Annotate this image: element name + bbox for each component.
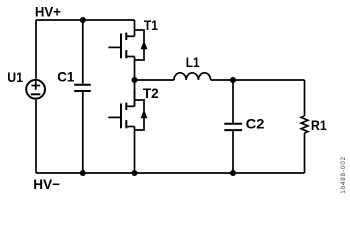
T1 arrow — [141, 41, 148, 50]
svg-text:16488-002: 16488-002 — [340, 156, 347, 194]
capacitor C2 — [224, 124, 242, 130]
svg-text:T2: T2 — [143, 85, 159, 101]
transistor T2 — [108, 90, 147, 173]
wire switch node to L1 — [135, 79, 175, 81]
node dot bottom rail / C2 — [230, 170, 236, 176]
T2 gate lead — [108, 116, 121, 118]
svg-text:T1: T1 — [144, 17, 158, 33]
T2 gate bar — [120, 104, 122, 129]
wire left vertical lower (U1 to HV-) — [35, 100, 37, 173]
wire switch node vertical (T1 source to T2 drain) — [134, 57, 136, 107]
svg-text:U1: U1 — [7, 69, 23, 85]
wire C2 branch upper — [232, 80, 234, 123]
capacitor C1 — [74, 85, 91, 91]
T1 drain stub — [126, 35, 134, 37]
T1 gate lead — [108, 46, 121, 48]
wire bottom rail HV- — [36, 172, 305, 174]
wire L1 to C2/R1 — [211, 79, 305, 81]
node dot bottom rail / C1 — [80, 170, 86, 176]
T2 drain lead — [134, 90, 136, 106]
T1 channel bottom segment — [125, 50, 127, 58]
T2 source stub — [126, 126, 134, 128]
svg-text:R1: R1 — [311, 117, 327, 133]
T1 drain lead — [134, 20, 136, 36]
wire C1 branch upper — [82, 20, 84, 84]
voltage source U1 — [26, 80, 45, 99]
wire left vertical upper (U1 to HV+) — [35, 20, 37, 79]
svg-text:HV+: HV+ — [35, 4, 61, 20]
svg-text:L1: L1 — [186, 54, 200, 70]
T1 source stub — [126, 56, 134, 58]
transistor T1 — [108, 20, 147, 60]
resistor R1 — [301, 116, 308, 133]
wire C2 branch lower — [232, 131, 234, 173]
T2 channel top segment — [125, 103, 127, 110]
wire R1 branch lower — [304, 133, 306, 173]
wire R1 branch upper — [304, 80, 306, 116]
T2 channel bottom segment — [125, 120, 127, 128]
T1 gate bar — [120, 34, 122, 59]
inductor L1 — [174, 73, 211, 80]
node dot L1 / C2 — [230, 77, 236, 83]
T2 body branch — [135, 100, 145, 130]
T2 drain stub — [126, 105, 134, 107]
svg-text:C2: C2 — [246, 116, 265, 132]
svg-text:C1: C1 — [57, 69, 74, 85]
node dot top rail / C1 — [80, 17, 86, 23]
node dot switch node — [132, 77, 138, 83]
T1 body branch — [135, 30, 145, 60]
wire C1 branch lower — [82, 92, 84, 173]
T2 arrow — [141, 110, 148, 119]
svg-text:HV−: HV− — [33, 176, 60, 192]
node dot bottom rail / T2 — [132, 170, 138, 176]
T1 channel top segment — [125, 33, 127, 40]
T2 source lead — [134, 127, 136, 174]
wire top rail HV+ — [36, 19, 135, 21]
